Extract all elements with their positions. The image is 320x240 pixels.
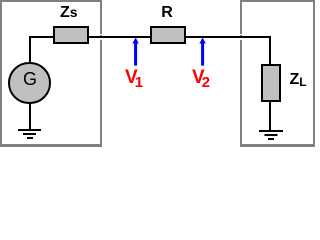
label ZL: [290, 71, 307, 89]
resistor Zs: [53, 26, 89, 44]
ground left: [17, 128, 43, 140]
load box: [240, 0, 315, 147]
label Zs: [60, 4, 78, 22]
ground right: [258, 129, 284, 141]
gap in source box border at wire: [99, 34, 103, 36]
arrow V1: [130, 37, 142, 67]
source box: [0, 0, 102, 147]
label V1: [125, 67, 143, 89]
label V2: [192, 67, 210, 89]
arrow V2: [197, 37, 209, 67]
wire generator bottom: [29, 103, 31, 129]
generator G: [8, 62, 51, 105]
label R: [161, 4, 173, 22]
resistor ZL: [261, 64, 281, 102]
gap in load box border at wire: [239, 34, 243, 36]
wire load bottom: [269, 101, 271, 130]
wire load top: [269, 36, 271, 65]
generator label G: [23, 69, 37, 90]
wire main horizontal: [29, 36, 271, 38]
wire generator top: [29, 36, 31, 63]
resistor R: [150, 26, 186, 44]
